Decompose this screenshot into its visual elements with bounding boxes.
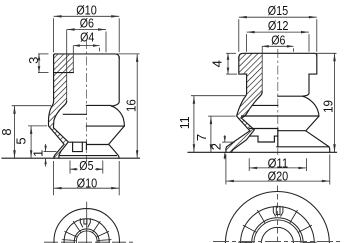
dimension Ø6 top (67, 16, 106, 53)
right cup: inner shoulder edge (252, 104, 278, 106)
left cup: lip waist edge (87, 144, 109, 146)
left cup: mouth center step (85, 142, 87, 149)
dimension 19 (total height) (321, 53, 336, 152)
svg-text:Ø15: Ø15 (268, 3, 289, 18)
right cup: flange top edge (239, 53, 317, 58)
left cup: flange bottom internal edge (54, 72, 74, 74)
left cup: shoulder silhouette edge (86, 104, 111, 106)
svg-text:Ø6: Ø6 (271, 33, 285, 48)
left cup: inner bellows wall profile (53, 101, 68, 158)
dimension 2 (lip step) (209, 135, 235, 159)
right bottom view: ring slots (238, 210, 317, 243)
dimension Ø5 bottom (70, 158, 103, 173)
svg-text:3: 3 (26, 57, 41, 64)
right bottom view: ring inner circle (252, 218, 304, 243)
hatch: left cup neck wall section (51, 73, 66, 108)
left bottom view: top keyway slot (80, 218, 90, 227)
dimension Ø10 top (54, 2, 120, 52)
left cup: inner shoulder edge (63, 113, 86, 115)
left bottom view: lip outer circle Ø10 (54, 209, 120, 243)
dimension Ø11 (249, 155, 306, 171)
left cup: Ø4 hole bore edge (72, 46, 74, 73)
dimension 7 (194, 116, 235, 152)
right cup: bellows fold edge (242, 115, 319, 117)
right cup: mouth ring groove (258, 136, 274, 142)
dimension 11 (177, 96, 246, 153)
left cup: Ø6 cavity bore edge (66, 30, 68, 102)
dimension Ø4 (73, 29, 99, 51)
right cup: flange right side and bottom step (309, 55, 317, 74)
right cup: Ø6 cavity bore edge (261, 46, 263, 92)
hatch: left cup lip wall section (54, 142, 68, 158)
svg-text:2: 2 (209, 143, 224, 150)
right cup: right outer profile (302, 74, 330, 152)
dimension 3 (flange height) (26, 54, 49, 73)
hatch: right cup bellows wall section (237, 98, 258, 131)
left cup: bottom lip edge and reference line (2, 157, 140, 159)
right bottom view: top keyway slot (273, 206, 283, 217)
left cup: mouth ring groove (73, 142, 83, 151)
left cup: top edge extension line (56, 53, 139, 55)
svg-text:4: 4 (210, 60, 225, 67)
svg-text:11: 11 (177, 116, 192, 129)
right cup: mouth center step (277, 129, 279, 147)
svg-text:Ø12: Ø12 (268, 18, 289, 33)
left bottom view: center hole circle (76, 231, 97, 243)
left bottom view: vertical centerline (86, 202, 88, 243)
left cup: mouth ceiling edge (69, 141, 86, 143)
right cup: mouth shelf edges (250, 135, 278, 137)
right bottom view: lip outer circle Ø20 (225, 192, 329, 243)
right cup: mouth ceiling edge left (250, 128, 278, 130)
right cup: shoulder silhouette edge (278, 95, 304, 97)
dimension Ø10 bottom (54, 161, 120, 195)
dimension 16 (total height) (123, 54, 138, 158)
right bottom view: bellows ring outer circle (241, 207, 315, 243)
hatch: left cup bellows wall section (49, 107, 69, 144)
dimension 5 (13, 126, 47, 158)
left cup: left outer profile (49, 55, 65, 158)
dimension Ø6 right (262, 33, 293, 52)
svg-text:19: 19 (321, 100, 336, 113)
svg-text:Ø20: Ø20 (268, 169, 289, 184)
right bottom view: horizontal centerline (213, 241, 341, 243)
centerline: right cup axis (277, 49, 279, 155)
right cup: top edge extension line (315, 52, 337, 54)
svg-text:8: 8 (0, 128, 14, 135)
dimension 1 (lip step) (30, 144, 56, 167)
svg-text:Ø10: Ø10 (77, 175, 98, 190)
right cup: flange left side and bottom step (239, 57, 247, 74)
left bottom view: bellows ring outer circle (64, 219, 109, 243)
dimension Ø20 (226, 154, 330, 184)
hatch: right cup body wall section (243, 74, 262, 99)
right cup: left outer profile (226, 74, 250, 152)
hatch: right cup lip wall section (226, 130, 254, 153)
right bottom view: vertical centerline (276, 186, 278, 243)
left bottom view: ring slots (62, 221, 112, 240)
left cup: flange top edge (54, 54, 120, 58)
right bottom view: ring inner circle 2 (254, 220, 301, 243)
left cup: lip rim edge (60, 155, 117, 157)
left bottom view: ring inner circle (74, 229, 99, 243)
dimension Ø15 (239, 3, 317, 52)
left cup: right outer profile (109, 57, 125, 158)
right cup: inner bellows wall profile (231, 92, 262, 152)
left bottom view: horizontal centerline (44, 241, 133, 243)
right cup: lip rim edge (277, 146, 329, 148)
svg-text:7: 7 (194, 134, 209, 141)
dimension 4 (flange height) (210, 53, 237, 74)
hatch: left cup flange section (Ø10/Ø4 ring) (54, 54, 74, 73)
svg-text:Ø4: Ø4 (80, 29, 94, 44)
right bottom view: center hole circle Ø6 (261, 227, 293, 243)
svg-text:16: 16 (123, 99, 138, 112)
left cup: bellows fold edge (86, 125, 124, 127)
dimension Ø12 (247, 18, 309, 52)
svg-text:Ø5: Ø5 (79, 158, 93, 173)
right cup: bottom lip edge and reference line (188, 151, 337, 153)
centerline: left cup axis (85, 40, 87, 161)
svg-text:5: 5 (13, 137, 28, 144)
svg-text:1: 1 (30, 150, 45, 157)
dimension 8 (0, 106, 51, 159)
right cup: mouth ceiling edge right (278, 130, 306, 132)
hatch: right cup flange section (Ø15/Ø6 ring) (239, 53, 262, 74)
